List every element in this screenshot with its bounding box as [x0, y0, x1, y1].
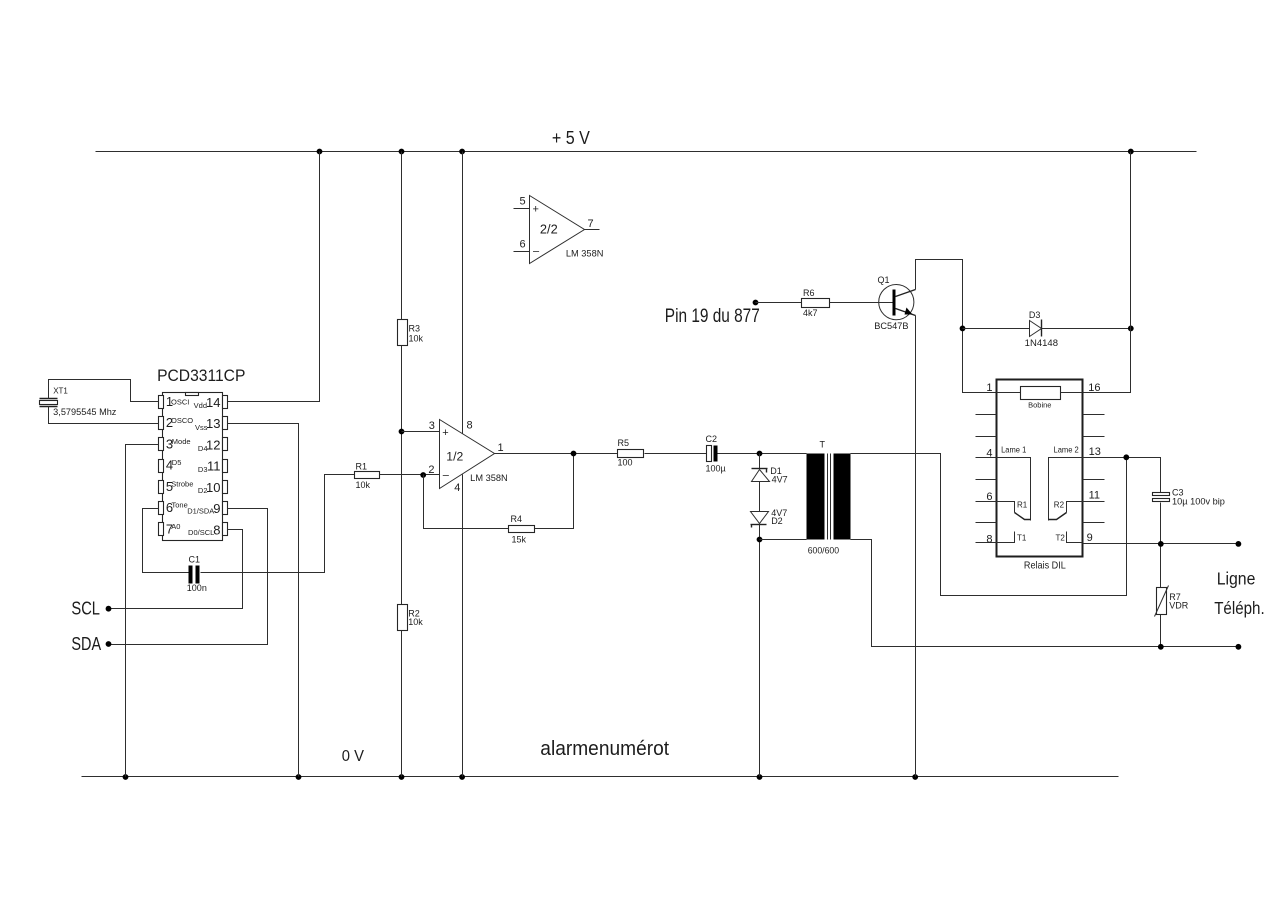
wire R5 to C2: [645, 453, 707, 455]
transistor Q1 BC547B: [879, 285, 916, 320]
relay contact T2: [1067, 532, 1083, 543]
junction on 0V rail at x=759: [757, 774, 763, 780]
diode D3 1N4148: [1030, 320, 1042, 337]
svg-text:1/2: 1/2: [446, 449, 463, 463]
wire Q1 emitter to ground: [915, 316, 917, 777]
node SDA: [106, 641, 112, 647]
svg-text:Q1: Q1: [878, 275, 890, 285]
svg-text:R4: R4: [511, 514, 523, 524]
svg-text:11: 11: [207, 459, 221, 474]
svg-text:+: +: [442, 427, 448, 439]
svg-text:100n: 100n: [187, 583, 207, 593]
resistor R2: [398, 605, 408, 631]
terminal Ligne 1: [1236, 541, 1242, 547]
IC pin 3 box: [159, 438, 164, 451]
relay contact R1: [997, 502, 1015, 513]
IC pin 11 box: [223, 460, 228, 473]
capacitor C3: [1153, 493, 1170, 502]
wire +5V down to relay pin 16: [1083, 152, 1131, 393]
wire op-amp pin 8 to +5V: [462, 152, 464, 434]
node divider junction: [399, 429, 405, 435]
svg-text:Vss: Vss: [195, 423, 208, 432]
svg-text:R5: R5: [618, 438, 630, 448]
junction on +5V rail at x=461.6: [459, 149, 465, 155]
svg-text:R3: R3: [409, 324, 421, 334]
wire C3 to line node: [1160, 503, 1162, 588]
svg-text:15k: 15k: [512, 534, 527, 544]
node output junction: [571, 451, 577, 457]
svg-text:10k: 10k: [356, 480, 371, 490]
IC pin 2 box: [159, 417, 164, 430]
node D3 anode junction: [960, 326, 966, 332]
node SCL: [106, 606, 112, 612]
IC pin names left: [171, 397, 193, 530]
node pin 13 junction: [1123, 454, 1129, 460]
wire IC pin 13 Vss to ground: [228, 424, 299, 777]
svg-text:4: 4: [986, 448, 992, 460]
svg-text:D4: D4: [198, 444, 208, 453]
svg-text:10k: 10k: [408, 617, 423, 627]
zener diode D1: [752, 469, 770, 482]
svg-text:+ 5 V: + 5 V: [552, 127, 591, 148]
IC pin 10 box: [223, 481, 228, 494]
svg-text:D0/SCL: D0/SCL: [188, 528, 214, 537]
svg-text:R1: R1: [1017, 501, 1028, 510]
svg-text:3: 3: [429, 420, 435, 432]
relay contact R2 armature: [1049, 513, 1067, 520]
relay left pin stubs: [976, 415, 997, 543]
svg-text:8: 8: [467, 419, 473, 431]
wire op-amp output: [495, 453, 618, 455]
svg-text:Pin 19 du 877: Pin 19 du 877: [665, 306, 760, 327]
capacitor C2: [707, 446, 718, 462]
IC pin 4 box: [159, 460, 164, 473]
wire transformer secondary bottom to line: [851, 540, 1239, 647]
relay contact blade Lame 2: [1049, 458, 1083, 521]
IC pin 5 box: [159, 481, 164, 494]
wire feedback down to R4: [424, 475, 509, 529]
junction on +5V rail at x=401: [399, 149, 405, 155]
svg-text:SCL: SCL: [71, 598, 100, 619]
wire +5V to R3: [401, 152, 403, 320]
transformer T windings: [807, 454, 851, 540]
0V ground rail: [82, 776, 1119, 778]
IC pin 9 box: [223, 502, 228, 515]
svg-text:14: 14: [206, 395, 220, 410]
svg-text:16: 16: [1088, 382, 1100, 394]
svg-text:Bobine: Bobine: [1028, 401, 1051, 410]
svg-text:12: 12: [206, 437, 220, 452]
svg-text:C1: C1: [189, 555, 201, 565]
svg-text:PCD3311CP: PCD3311CP: [157, 367, 245, 385]
wire C1 right to R1 left: [201, 475, 355, 573]
wire Q1 collector up and to D3 anode node: [916, 260, 997, 393]
svg-text:A0: A0: [171, 522, 180, 531]
wire IC pin 14 Vdd to +5V: [228, 152, 320, 402]
resistor R3: [398, 320, 408, 346]
svg-text:6: 6: [520, 239, 526, 251]
wire R3 to R2 divider: [401, 346, 403, 605]
svg-text:100µ: 100µ: [706, 463, 726, 473]
node transformer primary bottom: [757, 537, 763, 543]
wire crystal bottom to IC pin 2: [49, 407, 159, 424]
svg-text:10k: 10k: [409, 333, 424, 343]
IC pin numbers left: [166, 394, 173, 537]
varistor R7 VDR: [1155, 586, 1169, 617]
svg-text:Mode: Mode: [172, 437, 191, 446]
svg-text:T2: T2: [1056, 534, 1066, 543]
svg-text:100: 100: [618, 457, 633, 467]
wire node to D3: [963, 328, 1030, 330]
wire D2 to ground: [759, 525, 761, 777]
svg-text:4V7: 4V7: [772, 474, 788, 484]
IC pin 1 box: [159, 396, 164, 409]
junction on +5V rail at x=319: [317, 149, 323, 155]
svg-text:D3: D3: [198, 465, 208, 474]
junction on 0V rail at x=298: [296, 774, 302, 780]
relay contact T1: [997, 532, 1015, 543]
svg-text:Lame 1: Lame 1: [1001, 445, 1027, 454]
junction on 0V rail at x=401: [399, 774, 405, 780]
svg-text:1N4148: 1N4148: [1025, 338, 1058, 348]
node C3 bottom junction: [1158, 541, 1164, 547]
svg-text:6: 6: [986, 491, 992, 503]
svg-text:Vdd: Vdd: [194, 401, 207, 410]
resistor R4: [509, 526, 535, 533]
svg-text:D2: D2: [771, 516, 783, 526]
svg-text:13: 13: [206, 416, 220, 431]
svg-text:2/2: 2/2: [540, 222, 558, 237]
svg-text:LM 358N: LM 358N: [566, 249, 604, 259]
svg-text:R2: R2: [1054, 501, 1065, 510]
node D3 cathode junction: [1128, 326, 1134, 332]
svg-text:1: 1: [498, 442, 504, 454]
zener diode D2: [751, 512, 769, 528]
wire IC pin 8 to SCL: [109, 530, 243, 609]
svg-text:D1/SDA: D1/SDA: [187, 507, 214, 516]
wire R4 to output node: [535, 454, 574, 529]
svg-text:R6: R6: [803, 288, 815, 298]
relay contact R2: [1067, 502, 1083, 513]
svg-text:LM 358N: LM 358N: [470, 473, 508, 483]
svg-text:–: –: [533, 246, 540, 258]
wire R6 to Q1 base: [830, 302, 893, 304]
wire transformer secondary top to relay lame2: [851, 454, 1127, 596]
svg-text:Strobe: Strobe: [171, 480, 193, 489]
svg-text:R1: R1: [356, 462, 368, 472]
svg-text:D3: D3: [1029, 310, 1041, 320]
svg-text:–: –: [443, 470, 450, 482]
svg-text:T1: T1: [1017, 534, 1027, 543]
IC pin names right: [187, 401, 214, 537]
svg-text:9: 9: [213, 501, 220, 516]
crystal XT1: [40, 399, 58, 407]
wire R2 to ground: [401, 631, 403, 777]
svg-text:5: 5: [520, 196, 526, 208]
svg-text:D5: D5: [172, 458, 182, 467]
svg-text:OSCI: OSCI: [171, 397, 189, 406]
wire IC pin 9 to SDA: [109, 509, 268, 645]
svg-text:Relais DIL: Relais DIL: [1024, 560, 1066, 572]
junction on 0V rail at x=125: [123, 774, 129, 780]
wire IC pin 6 Tone to C1: [143, 509, 189, 573]
IC pin 6 box: [159, 502, 164, 515]
wire divider to plus input: [402, 431, 440, 433]
svg-text:0 V: 0 V: [342, 748, 365, 765]
relay coil Bobine: [997, 387, 1083, 400]
IC pin 8 box: [223, 523, 228, 536]
relay right pin stubs: [1083, 415, 1105, 523]
svg-text:Téléph.: Téléph.: [1214, 598, 1265, 618]
op-amp U2B 2/2 LM358N triangle: [514, 196, 600, 264]
wire R7 to line 2: [1160, 615, 1162, 647]
wire D1 to D2: [759, 482, 761, 512]
svg-text:13: 13: [1089, 446, 1101, 458]
wire IC pin 3 Mode to ground: [126, 445, 159, 777]
resistor R1: [355, 472, 380, 479]
wire node to transformer primary bottom: [760, 539, 807, 541]
svg-text:D2: D2: [198, 486, 208, 495]
wire node to D1: [759, 454, 761, 469]
svg-text:BC547B: BC547B: [874, 321, 908, 332]
relay box Relais DIL: [997, 380, 1083, 557]
svg-text:Tone: Tone: [172, 501, 188, 510]
wire relay pin 13 to C3: [1083, 458, 1161, 493]
wire crystal top to IC pin 1: [49, 380, 159, 402]
svg-text:Ligne: Ligne: [1217, 569, 1256, 589]
terminal Ligne 2: [1236, 644, 1242, 650]
svg-text:OSCO: OSCO: [171, 416, 193, 425]
svg-text:7: 7: [588, 218, 594, 230]
wire op-amp pin 4 to ground: [462, 475, 464, 777]
+5V power rail: [96, 151, 1197, 153]
node R7 bottom junction: [1158, 644, 1164, 650]
svg-text:SDA: SDA: [71, 633, 101, 654]
svg-text:8: 8: [213, 522, 220, 537]
svg-text:VDR: VDR: [1169, 601, 1189, 611]
node minus input junction: [420, 472, 426, 478]
svg-text:1: 1: [986, 382, 992, 394]
junction on +5V rail at x=1130.3: [1128, 149, 1134, 155]
IC pin 14 box: [223, 396, 228, 409]
relay contact blade Lame 1: [997, 458, 1031, 521]
op-amp U2A 1/2 LM358N triangle: [440, 420, 495, 489]
svg-text:600/600: 600/600: [808, 546, 839, 556]
svg-text:9: 9: [1087, 532, 1093, 544]
svg-text:10: 10: [206, 480, 220, 495]
svg-text:+: +: [533, 203, 539, 215]
IC pin 12 box: [223, 438, 228, 451]
svg-text:4k7: 4k7: [803, 308, 818, 318]
wire input to R6: [756, 302, 802, 304]
resistor R5: [618, 450, 644, 458]
svg-text:XT1: XT1: [53, 387, 68, 396]
IC U1 PCD3311CP body: [163, 393, 223, 541]
IC pin 7 box: [159, 523, 164, 536]
wire relay pin 9 to terminal: [1083, 543, 1239, 545]
svg-text:4: 4: [454, 482, 460, 494]
IC pin 13 box: [223, 417, 228, 430]
junction on 0V rail at x=461.6: [459, 774, 465, 780]
IC pin numbers right: [206, 395, 220, 538]
svg-text:10µ 100v bip: 10µ 100v bip: [1172, 496, 1225, 506]
svg-text:T: T: [820, 440, 826, 450]
resistor R6: [802, 299, 830, 308]
svg-text:3,5795545 Mhz: 3,5795545 Mhz: [53, 407, 117, 417]
svg-text:Lame 2: Lame 2: [1054, 445, 1080, 454]
wire C2 to transformer: [718, 453, 807, 455]
svg-text:C2: C2: [706, 434, 718, 444]
svg-text:alarmenumérot: alarmenumérot: [540, 738, 669, 760]
node Pin19 input: [753, 300, 759, 306]
wire D3 cathode to +5V branch: [1042, 328, 1131, 330]
junction on 0V rail at x=914.7: [912, 774, 918, 780]
node C2 output junction: [757, 451, 763, 457]
wire R1 to minus input: [380, 474, 440, 476]
capacitor C1: [189, 566, 200, 584]
svg-text:8: 8: [986, 534, 992, 546]
relay contact R1 armature: [1015, 513, 1031, 520]
svg-text:11: 11: [1089, 490, 1100, 502]
